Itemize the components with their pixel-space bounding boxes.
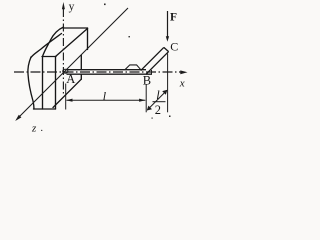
- svg-text:2: 2: [155, 103, 161, 117]
- svg-text:B: B: [143, 74, 151, 88]
- svg-text:C: C: [170, 39, 178, 53]
- svg-text:l: l: [156, 88, 160, 102]
- svg-text:F: F: [170, 11, 177, 23]
- svg-text:y: y: [69, 1, 75, 13]
- svg-text:z: z: [31, 123, 37, 135]
- svg-text:.: .: [41, 123, 44, 134]
- svg-text:A: A: [66, 72, 75, 86]
- svg-text:x: x: [179, 78, 185, 90]
